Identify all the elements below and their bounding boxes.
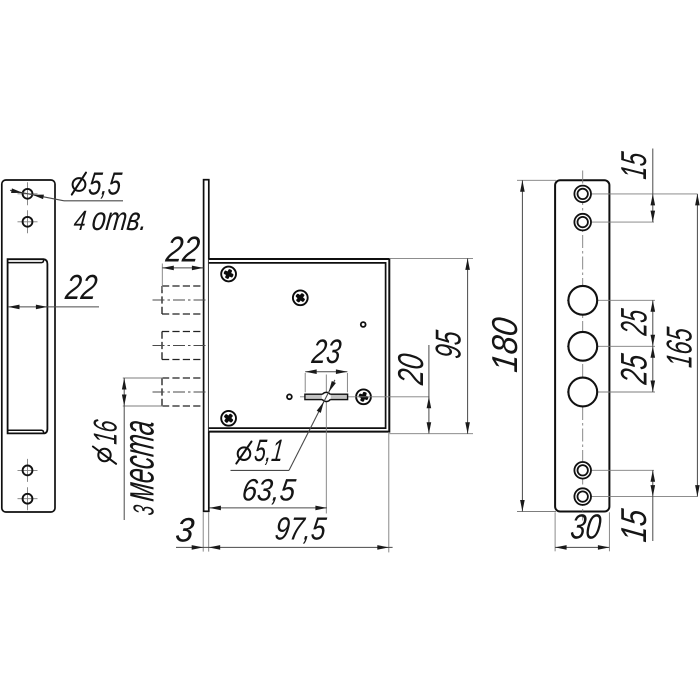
dimension 22 (cutout width) line [8,306,99,308]
dimension 30 line [555,546,609,548]
cutout lip inner line top [8,260,44,263]
cutout lip inner line bottom [8,430,44,433]
faceplate countersunk screw hole 2 [574,214,591,231]
svg-text:4 отв.: 4 отв. [72,201,150,238]
svg-text:180: 180 [484,315,525,374]
strike plate screw hole 1 [18,193,38,195]
dimension 180 line [521,180,523,511]
dimension 180 extension lines [517,179,556,181]
small hole right [361,322,366,327]
svg-text:165: 165 [659,325,700,370]
keyhole horizontal centerline [300,396,430,398]
dimension 23 extension lines [304,373,306,392]
bottom extension lines (faceplate thickness) [202,512,204,551]
faceplate countersunk screw hole 3 [574,462,591,479]
svg-text:63,5: 63,5 [240,473,298,508]
label diameter 5,1 underline [231,469,290,471]
small hole left of keyhole [287,394,292,399]
svg-text:97,5: 97,5 [273,511,328,547]
keyhole center bulge [322,392,331,401]
leader line for keyhole diameter 5,1 [289,380,335,471]
dimension 165 line [696,194,698,497]
phillips screw bottom-left [221,411,236,426]
keyhole vertical centerline [325,375,327,514]
bolt hole centerline 3 [567,391,655,393]
label diameter 16 (rotated) [98,449,110,461]
label diameter 5,1 [238,447,251,460]
dimension 95 line [467,258,469,433]
dimension 95 extension lines [389,257,473,259]
dimension 22 top line [162,267,203,269]
strike plate screw hole 3 [18,469,38,471]
svg-text:20: 20 [390,351,431,387]
dimension 22 (bolt backset) extension line [161,264,163,291]
strike plate screw hole 4 [18,498,38,500]
bolt hole 1 [568,286,597,315]
dimension 20 line with tail [428,345,430,434]
svg-text:15: 15 [613,506,654,544]
dimension 23 line [305,371,347,373]
dimension 25x2 line [652,300,654,392]
svg-text:25: 25 [613,307,655,338]
faceplate screw hole 1 centerline [574,193,697,195]
phillips screw top-left [221,267,236,282]
bolt hole 3 [568,378,597,407]
leader arrows at hole [11,188,23,195]
svg-text:5,5: 5,5 [87,166,124,202]
bolt hole centerline 1 [567,299,655,301]
dimension 30 extension lines [554,512,556,551]
bolt hole 2 [568,332,597,361]
left view: strike plate outline [2,180,55,512]
svg-text:5,1: 5,1 [253,433,286,468]
bolts (hidden lines), 3 places [162,285,203,287]
lock body inner (cover) outline [209,263,386,428]
svg-text:25: 25 [613,352,655,387]
dimension 15 bottom line [652,470,654,541]
strike plate screw hole 2 [18,221,38,223]
dimension d16 line with tail [123,378,125,520]
leader line for hole diameter 5,5 [10,190,64,201]
middle view: faceplate edge (vertical strip) [204,180,209,512]
faceplate screw hole 3 centerline [574,469,654,471]
svg-text:22: 22 [163,229,202,270]
svg-text:30: 30 [569,508,604,547]
svg-text:23: 23 [309,333,343,371]
phillips screw top-middle [293,290,308,305]
dimension 63,5 line [209,507,327,509]
faceplate screw hole 4 centerline [574,496,697,498]
right view: faceplate outline [555,180,609,511]
phillips screw right [356,389,371,404]
dimension 15 top line [652,149,654,223]
strike plate rectangular cutout [8,259,48,433]
faceplate countersunk screw hole 1 [574,186,591,203]
dimension d16 extension lines [123,377,163,379]
svg-text:95: 95 [428,328,469,361]
bolt hole centerline 2 [567,345,655,347]
lock body outer outline [209,259,389,432]
label diameter 5,5 [73,178,86,191]
faceplate countersunk screw hole 4 [574,488,591,505]
svg-text:22: 22 [63,268,100,307]
keyhole slot [305,394,348,399]
faceplate screw hole 2 centerline [574,221,654,223]
faceplate vertical centerline [582,171,584,521]
dimension 3 / 97,5 bottom line [176,546,393,548]
